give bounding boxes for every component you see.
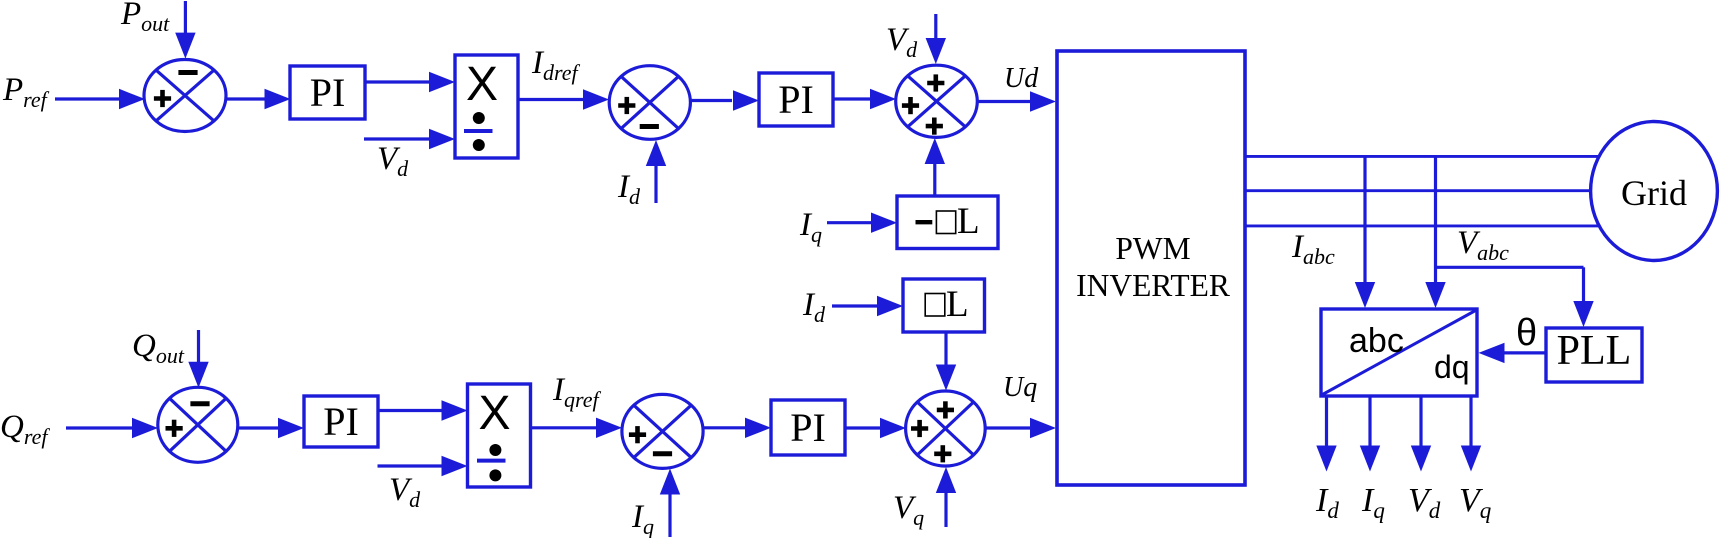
svg-text:Ud: Ud	[1004, 63, 1039, 94]
wire phase B bus	[1245, 189, 1591, 192]
svg-text:Grid: Grid	[1621, 173, 1687, 213]
svg-text:Uq: Uq	[1003, 372, 1037, 403]
PI block PI4	[771, 400, 845, 455]
arrowhead Uq into PWM inverter	[1030, 418, 1056, 438]
node I_d label (wL input)	[802, 287, 826, 327]
arrowhead V_abc into PLL	[1573, 301, 1593, 327]
wire I_q up to S5	[668, 494, 671, 537]
arrowhead I_abc into abc-dq	[1355, 282, 1375, 308]
wire V_abc tap down	[1434, 156, 1437, 284]
wire phase A bus	[1245, 155, 1599, 158]
wire S2 to PI2	[690, 99, 732, 102]
node P_out label	[120, 0, 170, 36]
arrowhead into PI2	[733, 90, 759, 110]
arrowhead into PI4	[745, 418, 771, 438]
wire I_q to -wL block	[827, 221, 871, 224]
wire S3 to PWM inverter	[977, 100, 1030, 103]
wire P_ref to summer S1	[55, 97, 133, 100]
arrowhead into PI1	[265, 89, 291, 109]
wire S6 to PWM inverter	[985, 426, 1030, 429]
node Q_ref input label	[0, 409, 50, 449]
node V_d label (X1 denominator)	[377, 141, 409, 181]
node V_abc label	[1457, 225, 1509, 265]
node I_q output label	[1361, 482, 1385, 523]
node I_d label (S2 input)	[617, 169, 641, 209]
arrowhead into summer S4	[132, 418, 158, 438]
divider block X1	[455, 55, 518, 158]
PI block PI1	[290, 66, 365, 119]
wire V_d into X1	[364, 137, 430, 140]
arrowhead P_out into S1	[175, 33, 195, 59]
svg-text:L: L	[957, 201, 980, 242]
wire S5 to PI4	[703, 426, 745, 429]
gain block -wL	[897, 196, 998, 249]
svg-text:PLL: PLL	[1557, 328, 1632, 374]
svg-text:PI: PI	[310, 70, 346, 115]
wire output V_q	[1469, 396, 1472, 447]
arrowhead into X1 numerator	[429, 72, 455, 92]
arrowhead into S3	[870, 89, 896, 109]
wire Q_ref to summer S4	[66, 426, 132, 429]
summer S3 (Ud sum)	[896, 65, 978, 137]
wire output V_d	[1419, 396, 1422, 447]
wire wL down to S6	[944, 332, 947, 365]
arrowhead output I_q	[1360, 446, 1380, 472]
abc to dq transform block	[1321, 309, 1477, 396]
svg-text:abc: abc	[1349, 322, 1404, 360]
PI block PI2	[759, 73, 833, 126]
wire -wL up to S3	[933, 162, 936, 196]
wire V_d into X2	[378, 464, 442, 467]
arrowhead theta into abc-dq	[1479, 343, 1505, 363]
svg-text:PI: PI	[323, 399, 359, 444]
node I_q label (S5 input)	[631, 499, 654, 538]
arrowhead wL into S6	[936, 365, 956, 391]
summer S1 (P error)	[144, 60, 226, 132]
node I_abc label	[1291, 229, 1335, 269]
wire V_d down to S3	[934, 14, 937, 38]
node Q_out label	[132, 328, 185, 368]
arrowhead into X2 numerator	[442, 400, 468, 420]
PI block PI3	[304, 396, 378, 447]
summer S6 (Uq sum)	[906, 391, 986, 466]
wire output I_q	[1368, 396, 1371, 447]
arrowhead V_abc into abc-dq	[1425, 282, 1445, 308]
wire P_out down	[184, 1, 187, 36]
wire S1 to PI1	[226, 97, 266, 100]
wire Q_out down	[197, 330, 200, 364]
divider block X2	[468, 384, 531, 487]
arrowhead output I_d	[1316, 446, 1336, 472]
arrowhead V_d into X1	[429, 129, 455, 149]
arrowhead V_d into S3	[926, 38, 946, 64]
arrowhead into S6	[880, 418, 906, 438]
node V_q label (S6 bottom input)	[893, 490, 924, 530]
wire output I_d	[1325, 396, 1328, 447]
wire S4 to PI3	[238, 426, 278, 429]
wire X1 to summer S2	[518, 98, 583, 101]
svg-text:X: X	[478, 387, 510, 440]
Grid source	[1591, 122, 1718, 261]
arrowhead Ud into PWM inverter	[1030, 91, 1056, 111]
arrowhead V_d into X2	[442, 456, 468, 476]
node Uq label	[1003, 372, 1037, 403]
arrowhead V_q into S6	[936, 467, 956, 493]
svg-text:PI: PI	[790, 405, 826, 450]
svg-text:dq: dq	[1434, 349, 1470, 385]
wire PI2 to summer S3	[833, 97, 870, 100]
node Ud label	[1004, 63, 1039, 94]
wire PI4 to summer S6	[845, 426, 880, 429]
PLL block	[1546, 328, 1642, 382]
wire I_abc tap down	[1363, 156, 1366, 284]
wire I_d to wL block	[832, 304, 877, 307]
arrowhead into S2	[583, 89, 609, 109]
svg-text:PI: PI	[778, 77, 814, 122]
PWM inverter block	[1057, 51, 1245, 485]
summer S2 (Id error)	[609, 66, 690, 140]
arrowhead -wL into S3	[925, 138, 945, 164]
node I_q label (-wL input)	[799, 207, 822, 247]
summer S5 (Iq error)	[622, 394, 703, 468]
arrowhead into PI3	[278, 418, 304, 438]
node I_dref label	[531, 45, 581, 85]
arrowhead into wL block	[877, 296, 903, 316]
gain block wL	[903, 279, 985, 332]
wire I_d up to S2	[654, 166, 657, 203]
summer S4 (Q error)	[158, 387, 238, 462]
arrowhead I_d into S2	[646, 140, 666, 166]
arrowhead Q_out into S4	[188, 362, 208, 388]
arrowhead output V_d	[1411, 446, 1431, 472]
svg-text:PWM: PWM	[1115, 231, 1190, 266]
wire PLL to abc-dq	[1504, 351, 1546, 354]
node P_ref input label	[2, 72, 50, 112]
svg-text:θ: θ	[1516, 312, 1537, 354]
arrowhead into -wL block	[871, 213, 897, 233]
node theta label	[1516, 312, 1537, 354]
svg-text:INVERTER: INVERTER	[1076, 268, 1230, 303]
wire PI1 to divider X1	[365, 80, 430, 83]
node I_d output label	[1315, 482, 1339, 523]
wire X2 to summer S5	[531, 426, 597, 429]
node I_qref label	[552, 372, 602, 412]
arrowhead into summer S1	[119, 89, 145, 109]
arrowhead into S5	[596, 418, 622, 438]
arrowhead output V_q	[1461, 446, 1481, 472]
wire V_abc branch to PLL	[1436, 267, 1584, 307]
node V_d label (X2 denominator)	[389, 472, 421, 512]
wire phase C bus	[1245, 224, 1598, 227]
svg-text:X: X	[466, 58, 498, 111]
node V_d output label	[1408, 482, 1441, 523]
wire V_q up to S6	[944, 493, 947, 527]
node V_q output label	[1459, 482, 1491, 523]
arrowhead I_q into S5	[660, 469, 680, 495]
node V_d label (S3 top input)	[886, 22, 918, 62]
svg-text:L: L	[946, 284, 969, 325]
wire PI3 to divider X2	[378, 409, 442, 412]
